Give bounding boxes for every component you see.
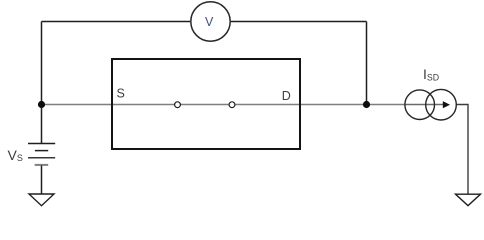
node A junction dot — [38, 101, 45, 108]
battery VS plate short upper — [35, 150, 48, 152]
current source ISD circle right — [426, 89, 457, 120]
wire right vertical (top wire down to node B) — [366, 22, 368, 105]
wire top-right (voltmeter to node B) — [231, 21, 367, 23]
battery VS plate long top — [28, 143, 55, 145]
voltmeter V — [191, 2, 230, 41]
wire main horizontal S-D net (node A to current source) — [42, 104, 407, 106]
wire current source to right ground drop — [456, 105, 468, 195]
probe point circle 2 — [229, 102, 235, 108]
current source ISD circle left — [405, 90, 435, 120]
svg-text:V: V — [205, 15, 214, 29]
probe point circle 1 — [175, 102, 181, 108]
ground (right) — [456, 194, 481, 206]
current source arrowhead — [443, 101, 450, 108]
wire left vertical (top wire down through node A to battery) — [41, 22, 43, 144]
battery VS plate long lower — [28, 157, 55, 159]
node B junction dot — [363, 101, 370, 108]
svg-text:D: D — [282, 89, 291, 103]
wire top-left (node A to voltmeter) — [42, 21, 191, 23]
DUT box (device under test) — [112, 59, 300, 149]
wire current source internal arrow line — [406, 104, 444, 106]
wire battery to left ground — [41, 166, 43, 195]
battery VS plate short bottom (gray) — [35, 164, 49, 166]
ground (left) — [29, 194, 54, 206]
svg-text:S: S — [117, 87, 125, 101]
